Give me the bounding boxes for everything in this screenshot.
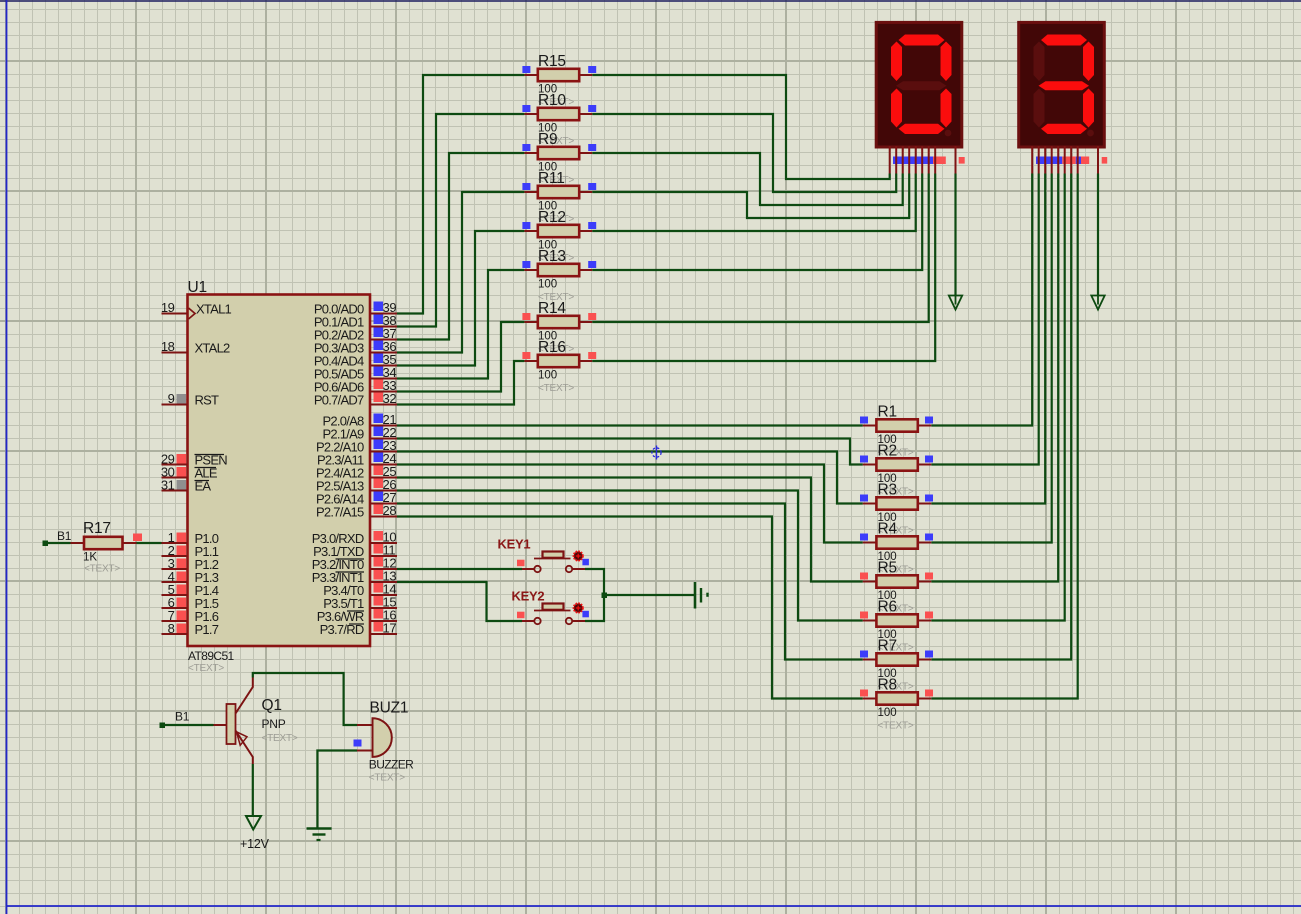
U1 pin 31 EA bbox=[161, 478, 212, 494]
U1 pins 10-17 P3.0-P3.7 bbox=[312, 530, 397, 638]
U1 pins 1-8 P1.0-P1.7 bbox=[162, 530, 219, 637]
svg-text:R8: R8 bbox=[878, 677, 897, 694]
svg-text:R14: R14 bbox=[538, 300, 566, 317]
wire net P3.2 pin12 to KEY1 bbox=[397, 568, 522, 570]
ground keys (rotated) bbox=[695, 582, 708, 609]
wire net P2.2 pin23 to R3 bbox=[397, 452, 863, 504]
svg-text:<TEXT>: <TEXT> bbox=[369, 773, 405, 784]
svg-text:BUZ1: BUZ1 bbox=[370, 700, 409, 717]
svg-text:R5: R5 bbox=[878, 560, 897, 577]
node B1 wire end dot (Q1 base) bbox=[160, 723, 166, 729]
wire KEY2 right to junction bbox=[585, 595, 604, 621]
wire Q1 collector to BUZ1 bbox=[253, 673, 357, 725]
push button KEY2 bbox=[512, 589, 589, 625]
svg-text:B1: B1 bbox=[175, 710, 190, 724]
wire R8 to display2 segment dp bbox=[931, 174, 1077, 699]
svg-text:RST: RST bbox=[195, 393, 220, 408]
svg-text:1K: 1K bbox=[83, 552, 97, 564]
svg-text:P0.7/AD7: P0.7/AD7 bbox=[314, 393, 364, 408]
wire R1 to display2 segment a bbox=[931, 174, 1032, 426]
resistor R7 100 bbox=[860, 638, 933, 693]
svg-text:<TEXT>: <TEXT> bbox=[84, 564, 120, 575]
resistor R6 100 bbox=[860, 599, 933, 654]
resistor R2 100 bbox=[860, 443, 933, 498]
wire R14 to display1 segment g bbox=[592, 174, 929, 323]
svg-text:R16: R16 bbox=[538, 339, 566, 356]
svg-text:18: 18 bbox=[161, 339, 175, 354]
svg-text:Q1: Q1 bbox=[262, 697, 282, 714]
wire junction to ground bbox=[604, 594, 695, 596]
wire R16 to display1 segment dp bbox=[592, 174, 935, 362]
wire R7 to display2 segment g bbox=[931, 174, 1071, 660]
origin marker bbox=[652, 446, 661, 460]
resistor R5 100 bbox=[860, 560, 933, 615]
svg-text:<TEXT>: <TEXT> bbox=[188, 663, 224, 674]
wire R10 to display1 segment b bbox=[592, 114, 896, 192]
U1 pin 18 XTAL2 bbox=[161, 339, 230, 356]
svg-text:XTAL2: XTAL2 bbox=[195, 341, 231, 356]
resistor R13 100 bbox=[522, 248, 596, 303]
wire net P0.1 pin38 to R10 bbox=[397, 114, 524, 327]
sheet border top bbox=[0, 0, 1301, 2]
wire net P0.0 pin39 to R15 bbox=[397, 75, 524, 314]
resistor R3 100 bbox=[860, 482, 933, 537]
wire R3 to display2 segment c bbox=[931, 174, 1045, 504]
wire R13 to display1 segment f bbox=[592, 174, 922, 271]
wire net P0.5 pin34 to R13 bbox=[397, 270, 524, 379]
svg-text:R13: R13 bbox=[538, 248, 566, 265]
node junction keys bbox=[602, 593, 608, 599]
wire display1 common to terminal bbox=[954, 174, 956, 296]
svg-text:19: 19 bbox=[161, 300, 175, 315]
svg-text:100: 100 bbox=[878, 707, 897, 719]
svg-text:P1.7: P1.7 bbox=[195, 622, 219, 637]
wire net P2.0 pin21 to R1 bbox=[397, 424, 863, 426]
wire net P2.3 pin24 to R4 bbox=[397, 465, 863, 543]
wire net P0.3 pin36 to R11 bbox=[397, 192, 524, 353]
wire net P0.4 pin35 to R12 bbox=[397, 231, 524, 366]
wire R17 to U1 pin1 bbox=[137, 542, 162, 544]
svg-text:B1: B1 bbox=[57, 529, 72, 543]
wire net P0.6 pin33 to R14 bbox=[397, 322, 524, 392]
ground buzzer bbox=[307, 829, 332, 841]
push button KEY1 bbox=[498, 537, 589, 573]
terminal arrow display2 common bbox=[1091, 296, 1104, 310]
buzzer BUZ1 bbox=[354, 700, 415, 784]
svg-text:<TEXT>: <TEXT> bbox=[878, 721, 914, 732]
svg-text:P2.7/A15: P2.7/A15 bbox=[316, 505, 364, 520]
svg-text:32: 32 bbox=[383, 391, 397, 406]
sheet border left bbox=[6, 0, 8, 914]
wire R6 to display2 segment f bbox=[931, 174, 1064, 621]
svg-text:XTAL1: XTAL1 bbox=[196, 302, 232, 317]
wire net P2.6 pin27 to R7 bbox=[397, 504, 863, 660]
wire display2 common to terminal bbox=[1097, 174, 1099, 296]
resistor R9 100 bbox=[522, 131, 596, 186]
display1 pins bbox=[890, 146, 956, 174]
wire net B1 to R17 bbox=[45, 542, 71, 544]
svg-text:AT89C51: AT89C51 bbox=[188, 649, 235, 663]
wire R15 to display1 segment a bbox=[592, 75, 890, 179]
svg-text:U1: U1 bbox=[188, 279, 207, 296]
svg-text:28: 28 bbox=[383, 503, 397, 518]
svg-text:<TEXT>: <TEXT> bbox=[262, 733, 298, 744]
wire KEY1 right to junction bbox=[585, 569, 604, 595]
U1 pin 30 ALE bbox=[161, 465, 218, 481]
U1 pin 19 XTAL1 bbox=[161, 300, 232, 319]
svg-text:R6: R6 bbox=[878, 599, 897, 616]
wire R9 to display1 segment c bbox=[592, 153, 903, 205]
resistor R14 100 bbox=[522, 300, 596, 355]
wire R12 to display1 segment e bbox=[592, 174, 916, 232]
svg-text:R15: R15 bbox=[538, 53, 566, 70]
wire net P3.3 pin13 to KEY2 bbox=[397, 582, 522, 621]
display2 selection band bbox=[1036, 157, 1107, 165]
display1 selection band bbox=[893, 157, 965, 165]
U1 pins 21-28 P2.0/A8-P2.7/A15 bbox=[316, 412, 397, 520]
wire BUZ1 to ground bbox=[317, 751, 357, 829]
svg-text:R9: R9 bbox=[538, 131, 557, 148]
resistor R1 100 bbox=[860, 404, 933, 459]
wire R4 to display2 segment d bbox=[931, 174, 1051, 543]
resistor R8 100 bbox=[860, 677, 933, 732]
resistor R15 100 bbox=[522, 53, 596, 108]
svg-text:8: 8 bbox=[168, 621, 175, 636]
svg-text:R7: R7 bbox=[878, 638, 897, 655]
wire net P2.4 pin25 to R5 bbox=[397, 478, 863, 582]
svg-text:17: 17 bbox=[383, 621, 397, 636]
wire R11 to display1 segment d bbox=[592, 174, 909, 219]
U1 pin 29 PSEN bbox=[161, 452, 227, 468]
sheet border bottom bbox=[6, 905, 1301, 907]
svg-text:KEY1: KEY1 bbox=[498, 537, 531, 552]
wire R5 to display2 segment e bbox=[931, 174, 1058, 582]
svg-text:R11: R11 bbox=[538, 170, 565, 187]
resistor R12 100 bbox=[522, 209, 596, 264]
svg-text:31: 31 bbox=[161, 478, 175, 493]
wire Q1 emitter to +12V bbox=[252, 764, 254, 816]
wire net P2.5 pin26 to R6 bbox=[397, 491, 863, 621]
svg-text:R10: R10 bbox=[538, 92, 566, 109]
svg-text:R1: R1 bbox=[878, 404, 897, 421]
svg-text:R2: R2 bbox=[878, 443, 897, 460]
U1 pin 9 RST bbox=[162, 391, 220, 408]
power terminal +12V bbox=[240, 816, 270, 851]
svg-text:100: 100 bbox=[538, 370, 557, 382]
wire net P0.2 pin37 to R9 bbox=[397, 153, 524, 340]
svg-text:R4: R4 bbox=[878, 521, 898, 538]
svg-text:R3: R3 bbox=[878, 482, 897, 499]
display2 pins bbox=[1032, 146, 1098, 174]
svg-text:KEY2: KEY2 bbox=[512, 589, 545, 604]
resistor R16 100 bbox=[522, 339, 596, 394]
svg-text:<TEXT>: <TEXT> bbox=[538, 383, 574, 394]
U1 pins 39-32 P0.0/AD0-P0.7/AD7 bbox=[314, 300, 397, 408]
resistor R11 100 bbox=[522, 170, 596, 225]
ic U1 AT89C51 body bbox=[188, 279, 371, 674]
terminal arrow display1 common bbox=[949, 296, 962, 310]
svg-text:+12V: +12V bbox=[240, 837, 270, 851]
svg-text:R17: R17 bbox=[83, 520, 111, 537]
wire R2 to display2 segment b bbox=[931, 174, 1038, 465]
resistor R17 1K bbox=[71, 520, 143, 575]
svg-text:9: 9 bbox=[168, 391, 175, 406]
resistor R10 100 bbox=[522, 92, 596, 147]
wire net B1 to Q1 base bbox=[162, 724, 214, 726]
svg-text:PNP: PNP bbox=[262, 717, 286, 731]
transistor Q1 PNP bbox=[214, 678, 298, 765]
wire net P2.7 pin28 to R8 bbox=[397, 517, 863, 699]
7-segment display 2 (digit 3) bbox=[1019, 22, 1105, 147]
wire net P0.7 pin32 to R16 bbox=[397, 361, 524, 405]
svg-text:BUZZER: BUZZER bbox=[369, 758, 414, 772]
svg-text:R12: R12 bbox=[538, 209, 566, 226]
svg-text:100: 100 bbox=[538, 279, 557, 291]
wire net P2.1 pin22 to R2 bbox=[397, 439, 863, 465]
resistor R4 100 bbox=[860, 521, 933, 576]
node B1 wire end dot (left) bbox=[43, 541, 49, 547]
7-segment display 1 (digit 0) bbox=[876, 22, 962, 147]
